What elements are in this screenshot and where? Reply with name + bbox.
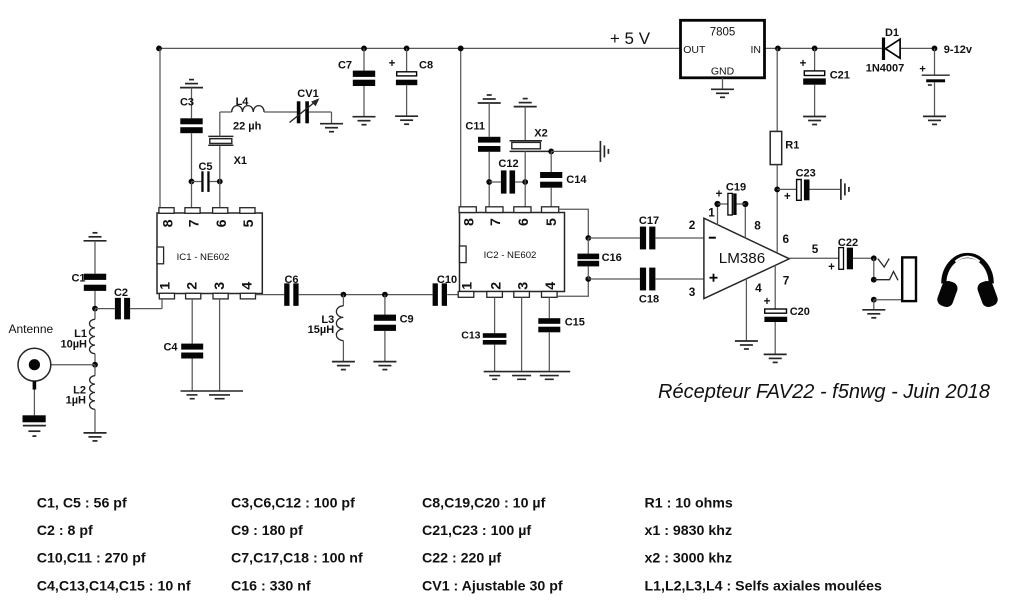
svg-text:D1: D1: [885, 27, 899, 39]
svg-text:R1 : 10 ohms: R1 : 10 ohms: [645, 495, 733, 511]
label opamp pin 1: [708, 205, 715, 219]
ground jack: [862, 310, 885, 318]
svg-text:15µH: 15µH: [308, 324, 335, 336]
svg-text:C9: C9: [400, 313, 414, 325]
svg-text:1N4007: 1N4007: [866, 62, 905, 74]
svg-text:1: 1: [708, 205, 715, 219]
label C13: [461, 330, 480, 342]
wire C4 to ground: [191, 359, 193, 392]
svg-text:L1,L2,L3,L4 : Selfs axiales mo: L1,L2,L3,L4 : Selfs axiales moulées: [645, 578, 882, 594]
label Antenne: [9, 322, 54, 336]
inductor L3: [336, 295, 343, 362]
svg-text:8: 8: [754, 219, 761, 233]
ground CV1: [320, 124, 343, 132]
svg-text:4: 4: [240, 282, 256, 290]
ground antenna pad: [23, 415, 46, 436]
wire C17 left lead: [588, 237, 640, 239]
inductor L2: [90, 365, 95, 433]
wire opamp pin1: [717, 204, 719, 225]
wire IC2 pin2 to C13: [494, 297, 496, 333]
label 1N4007: [866, 62, 905, 74]
ground above C11 inverted: [478, 95, 501, 103]
wire X2 to IC2 pin6: [524, 151, 526, 206]
svg-text:OUT: OUT: [683, 44, 706, 56]
opamp plus input mark: [710, 274, 718, 282]
node C9 junction: [382, 292, 388, 298]
label opamp pin 6: [783, 232, 790, 246]
svg-text:22 µh: 22 µh: [233, 121, 262, 133]
svg-text:C1: C1: [71, 273, 85, 285]
label X1: [234, 155, 247, 167]
svg-text:IN: IN: [751, 44, 762, 56]
ground C9: [373, 362, 396, 370]
svg-text:10µH: 10µH: [60, 338, 87, 350]
svg-text:+: +: [389, 58, 396, 70]
ground C8: [395, 116, 418, 124]
label component values table: [37, 495, 882, 594]
wire antenna to junction: [51, 364, 95, 366]
wire CV1 to ground: [309, 112, 332, 124]
label C12: [498, 158, 518, 170]
label C1: [71, 273, 85, 285]
svg-text:C12: C12: [498, 158, 518, 170]
node C19 right junction: [742, 201, 748, 207]
wire C13 to ground: [494, 345, 496, 372]
capacitor C15: [538, 318, 560, 332]
svg-text:C23: C23: [796, 167, 816, 179]
wire gnd to C11: [488, 103, 490, 137]
label IC2 pin 6: [516, 218, 532, 226]
svg-text:9-12v: 9-12v: [944, 44, 973, 56]
wire jack ground lead: [873, 300, 875, 310]
wire L4 to CV1: [264, 111, 297, 113]
svg-text:X2: X2: [534, 128, 547, 140]
wire C2 right lead to IC1 pin1: [130, 299, 162, 309]
svg-text:4: 4: [543, 282, 559, 290]
svg-text:x1 : 9830 khz: x1 : 9830 khz: [645, 523, 733, 539]
svg-text:7: 7: [783, 273, 790, 287]
label L2 value: [66, 394, 86, 406]
svg-text:3: 3: [515, 282, 531, 290]
svg-text:C1, C5 : 56 pf: C1, C5 : 56 pf: [37, 495, 127, 511]
label IC2 pin 1: [460, 282, 476, 290]
wire gnd to C1: [94, 241, 96, 274]
wire gnd to X2: [524, 107, 526, 141]
wire C1 to node: [94, 291, 96, 309]
label C19: [726, 182, 746, 194]
svg-text:4: 4: [755, 281, 762, 295]
svg-text:IC1 - NE602: IC1 - NE602: [177, 252, 230, 263]
svg-text:C7: C7: [338, 59, 352, 71]
label title: [658, 381, 990, 403]
label C23: [796, 167, 816, 179]
capacitor C18: [640, 268, 656, 291]
svg-text:R1: R1: [785, 140, 799, 152]
arrow CV1: [290, 98, 320, 122]
capacitor C10: [433, 283, 447, 306]
resistor R1: [770, 131, 782, 164]
svg-text:2: 2: [488, 282, 504, 290]
label L2: [73, 385, 86, 397]
ground C7: [353, 117, 376, 125]
ground C21: [803, 117, 826, 125]
ground above X2 inverted: [514, 99, 537, 107]
ground L3: [332, 362, 355, 370]
label IC2 pin 4: [543, 282, 559, 290]
wire C5 node to IC1 pin7: [191, 182, 193, 209]
wire C23 left lead: [777, 188, 796, 190]
wire C2 left lead: [95, 308, 115, 310]
svg-text:3: 3: [212, 282, 228, 290]
svg-text:+: +: [764, 296, 771, 308]
svg-text:C18: C18: [639, 293, 659, 305]
label 7805: [710, 26, 736, 38]
battery 9-12v: [919, 64, 949, 85]
svg-text:C3: C3: [180, 96, 194, 108]
label LM386: [719, 250, 765, 267]
connector antenna: [18, 348, 51, 381]
svg-text:C6: C6: [284, 274, 298, 286]
label L3 value: [308, 324, 335, 336]
ground 7805 GND: [711, 89, 734, 97]
svg-text:C21,C23 : 100 µf: C21,C23 : 100 µf: [422, 523, 531, 539]
wire C14 to IC2 pin5: [550, 188, 552, 207]
wire X2 node to ground: [551, 150, 600, 152]
capacitor C14: [540, 172, 562, 188]
svg-text:C8: C8: [419, 60, 433, 72]
label X2: [534, 128, 547, 140]
label C20: [790, 306, 810, 318]
jack body: [902, 257, 916, 301]
wire C21 bottom lead: [814, 85, 816, 117]
svg-text:CV1 : Ajustable 30 pf: CV1 : Ajustable 30 pf: [422, 578, 563, 594]
label 9-12v: [944, 44, 973, 56]
label IC1 pin 2: [184, 282, 200, 290]
capacitor C8: [396, 72, 417, 85]
opamp minus input mark: [709, 237, 716, 239]
svg-text:C16 : 330 nf: C16 : 330 nf: [231, 578, 311, 594]
wire jack node vertical: [873, 258, 875, 279]
wire C14 top lead: [550, 151, 552, 172]
op-amp mixer IC2 NE602 body: [458, 207, 564, 297]
label C3: [180, 96, 194, 108]
wire C15 to ground: [548, 332, 550, 371]
label L4: [236, 96, 250, 108]
label IC1 pin 7: [186, 219, 202, 227]
headphones icon: [935, 255, 999, 308]
wire 7805 GND lead: [722, 78, 724, 90]
capacitor C21: [803, 71, 826, 85]
crystal X1: [208, 136, 233, 145]
node C12 left junction: [486, 179, 492, 185]
label opamp pin 5: [812, 242, 819, 256]
svg-text:C3,C6,C12 : 100 pf: C3,C6,C12 : 100 pf: [231, 495, 355, 511]
wire C6 to C10: [299, 294, 433, 296]
label IC2 pin 3: [515, 282, 531, 290]
svg-text:8: 8: [160, 219, 176, 227]
ground L2: [84, 433, 107, 441]
op-amp U1 LM386 triangle: [704, 218, 789, 298]
label C21: [830, 70, 850, 82]
wire jack sleeve lead: [874, 299, 902, 301]
wire C21 top lead: [814, 48, 816, 71]
label C8: [419, 60, 433, 72]
capacitor C1: [84, 274, 106, 291]
wire C18 left lead: [588, 278, 640, 280]
label opamp pin 2: [689, 218, 696, 232]
svg-text:C11: C11: [465, 121, 485, 133]
label C22 plus: [828, 262, 835, 274]
svg-text:5: 5: [544, 218, 560, 226]
wire C7 top lead: [363, 48, 365, 70]
svg-text:C10: C10: [437, 274, 457, 286]
svg-text:Antenne: Antenne: [9, 322, 54, 336]
svg-text:5: 5: [812, 242, 819, 256]
label C10: [437, 274, 457, 286]
svg-text:X1: X1: [234, 155, 247, 167]
node antenna coupling junction: [92, 306, 98, 312]
capacitor C4: [181, 344, 203, 359]
label IN: [751, 44, 762, 56]
label IC1 pin 5: [241, 219, 257, 227]
label IC1 - NE602: [177, 252, 230, 263]
svg-text:7: 7: [488, 218, 504, 226]
wire IC1 pin3 to ground: [219, 299, 221, 391]
svg-text:C2 : 8 pf: C2 : 8 pf: [37, 523, 93, 539]
svg-text:C22 : 220 µf: C22 : 220 µf: [422, 551, 501, 567]
svg-text:Récepteur FAV22 - f5nwg - Juin: Récepteur FAV22 - f5nwg - Juin 2018: [658, 381, 990, 403]
svg-text:7805: 7805: [710, 26, 736, 38]
capacitor C19: [728, 193, 737, 215]
capacitor C17: [640, 227, 656, 250]
wire opamp pin8: [744, 204, 746, 238]
node C19 left junction: [714, 201, 720, 207]
svg-text:C4: C4: [163, 341, 178, 353]
svg-text:C14: C14: [566, 174, 587, 186]
svg-text:1µH: 1µH: [66, 394, 86, 406]
wire IC2 pin5 stub to C16 top: [559, 209, 589, 238]
wire rail to IC2 pin8: [460, 48, 462, 206]
wire rail to R1: [776, 48, 778, 131]
capacitor C7: [353, 71, 375, 86]
node X2 C14 junction: [548, 149, 554, 155]
label C8 plus: [389, 58, 396, 70]
op-amp mixer IC1 NE602 body: [157, 208, 262, 299]
node battery rail junction: [932, 46, 938, 52]
crystal X2: [510, 141, 552, 152]
wire C22 to jack: [853, 257, 874, 259]
wire C16 vertical: [587, 238, 589, 279]
wire rail to IC1 pin8: [159, 48, 161, 208]
svg-text:+: +: [716, 189, 723, 201]
svg-text:6: 6: [516, 218, 532, 226]
label C20 plus: [764, 296, 771, 308]
ground C20: [764, 354, 787, 362]
inductor L4: [232, 106, 264, 112]
node C18 junction: [585, 276, 591, 282]
label GND: [711, 65, 735, 77]
wire IC1 pin6 to X1: [219, 145, 221, 208]
svg-text:C9 : 180 pf: C9 : 180 pf: [231, 523, 303, 539]
svg-text:C21: C21: [830, 70, 850, 82]
label L3: [321, 314, 334, 326]
label opamp pin 3: [689, 285, 696, 299]
wire R1 to opamp pin6: [776, 165, 778, 253]
capacitor C20: [764, 309, 787, 322]
inductor L1: [89, 309, 95, 365]
label IC1 pin 4: [240, 282, 256, 290]
label C11: [465, 121, 485, 133]
svg-text:1: 1: [460, 282, 476, 290]
svg-text:8: 8: [461, 218, 477, 226]
node C7 rail junction: [361, 46, 367, 52]
svg-text:C10,C11 : 270 pf: C10,C11 : 270 pf: [37, 551, 146, 567]
wire IC1 pin2 to C4: [191, 299, 193, 344]
wire C19 leads: [718, 203, 746, 205]
wire C18 right lead: [655, 278, 704, 280]
svg-text:L4: L4: [236, 96, 250, 108]
svg-text:C20: C20: [790, 306, 810, 318]
svg-text:C8,C19,C20 : 10 µf: C8,C19,C20 : 10 µf: [422, 495, 546, 511]
wire opamp output: [789, 257, 839, 259]
capacitor C22: [839, 248, 853, 270]
svg-text:2: 2: [184, 282, 200, 290]
label C6: [284, 274, 298, 286]
wire IC2 pin4 to C15: [548, 297, 550, 318]
label IC1 pin 3: [212, 282, 228, 290]
label IC2 pin 2: [488, 282, 504, 290]
ground X2 sideways: [600, 141, 608, 162]
svg-text:+: +: [919, 64, 925, 76]
svg-text:2: 2: [689, 218, 696, 232]
svg-text:3: 3: [689, 285, 696, 299]
svg-text:C4,C13,C14,C15 : 10 nf: C4,C13,C14,C15 : 10 nf: [37, 578, 191, 594]
wire C17 right lead: [655, 237, 704, 239]
wire battery top lead: [934, 48, 936, 74]
node jack tip junction: [871, 255, 877, 261]
diode D1 cathode bar: [882, 38, 885, 61]
label IC1 pin 6: [214, 219, 230, 227]
svg-text:6: 6: [783, 232, 790, 246]
wire opamp pin7 to C20: [774, 265, 776, 309]
label D1: [885, 27, 899, 39]
label opamp pin 7: [783, 273, 790, 287]
ground IC1 common: [181, 391, 244, 399]
capacitor C9: [374, 315, 396, 331]
label C16: [602, 252, 622, 264]
node antenna junction: [92, 362, 98, 368]
label C15: [565, 316, 585, 328]
capacitor C3: [180, 118, 202, 133]
svg-text:C22: C22: [838, 237, 858, 249]
svg-text:+: +: [800, 58, 807, 70]
label OUT: [683, 44, 706, 56]
svg-text:C13: C13: [461, 330, 480, 342]
label IC2 pin 8: [461, 218, 477, 226]
label opamp pin 4: [755, 281, 762, 295]
wire IC1 pin4 to C6: [256, 294, 285, 296]
node L3 junction: [341, 292, 347, 298]
ground above C3 inverted: [180, 80, 203, 88]
node R1 rail junction: [775, 46, 781, 52]
ground C23 sideways: [841, 179, 849, 200]
label CV1: [297, 88, 318, 100]
label C2: [114, 287, 128, 299]
svg-text:LM386: LM386: [719, 250, 765, 267]
svg-text:1: 1: [158, 282, 174, 290]
label C7: [338, 59, 352, 71]
ground battery: [923, 116, 946, 124]
wire C20 to ground: [774, 322, 776, 354]
ground opamp pin4: [735, 341, 758, 349]
node C5 left junction: [189, 179, 195, 185]
capacitor CV1: [297, 101, 309, 123]
ground above C1 inverted: [84, 233, 107, 241]
label C17: [639, 215, 659, 227]
node C23 junction: [774, 187, 780, 193]
svg-text:CV1: CV1: [297, 88, 318, 100]
label L4 value: [233, 121, 262, 133]
wire +5V power rail: [159, 47, 935, 49]
label C4: [163, 341, 178, 353]
label IC1 pin 1: [158, 282, 174, 290]
svg-text:C7,C17,C18 : 100 nf: C7,C17,C18 : 100 nf: [231, 551, 363, 567]
capacitor C5: [201, 171, 209, 192]
node C12 right junction: [522, 179, 528, 185]
capacitor C11: [478, 137, 500, 152]
svg-text:7: 7: [186, 219, 202, 227]
capacitor C12: [501, 170, 515, 193]
wire antenna ground stub: [33, 381, 37, 415]
label IC1 pin 8: [160, 219, 176, 227]
wire IC2 pin3 to ground: [521, 297, 523, 371]
wire IC2 pin4 stub to C16 bottom: [558, 279, 589, 296]
svg-text:x2 : 3000 khz: x2 : 3000 khz: [645, 551, 733, 567]
wire C12 leads: [489, 181, 525, 183]
wire C23 right lead: [810, 188, 841, 190]
svg-text:C2: C2: [114, 287, 128, 299]
label L1 value: [60, 338, 87, 350]
svg-text:5: 5: [241, 219, 257, 227]
wire C9 top lead: [384, 295, 386, 315]
capacitor C6: [284, 283, 298, 306]
wire C8 bottom lead: [406, 85, 408, 116]
label C5: [198, 161, 212, 173]
capacitor C2: [115, 298, 130, 320]
wire C8 top lead: [406, 48, 408, 71]
label opamp pin 8: [754, 219, 761, 233]
svg-text:C16: C16: [602, 252, 622, 264]
svg-text:6: 6: [214, 219, 230, 227]
label C23 plus: [784, 191, 791, 203]
node IC2 rail junction: [458, 46, 464, 52]
svg-text:IC2 - NE602: IC2 - NE602: [484, 250, 537, 261]
wire C7 bottom lead: [363, 86, 365, 117]
wire C3 to C5 node: [191, 133, 193, 181]
svg-text:GND: GND: [711, 65, 735, 77]
label IC2 - NE602: [484, 250, 537, 261]
label L1: [74, 328, 87, 340]
label +5V: [610, 29, 651, 48]
capacitor C13: [483, 333, 507, 344]
svg-text:+: +: [784, 191, 791, 203]
label R1: [785, 140, 799, 152]
regulator 7805 box: [681, 20, 765, 78]
label C21 plus: [800, 58, 807, 70]
capacitor C23: [797, 180, 810, 201]
node C21 rail junction: [812, 46, 818, 52]
svg-text:+: +: [828, 262, 835, 274]
